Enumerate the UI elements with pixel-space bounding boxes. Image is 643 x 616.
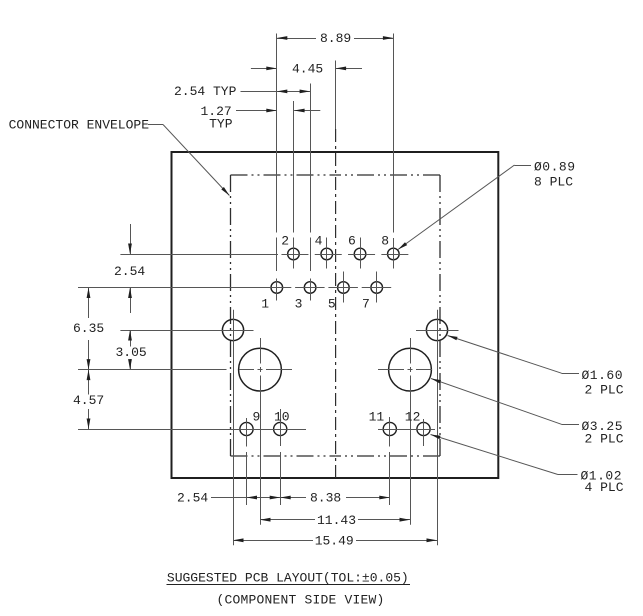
svg-text:6.35: 6.35 xyxy=(73,321,104,336)
svg-text:2.54 TYP: 2.54 TYP xyxy=(174,84,237,99)
svg-text:1: 1 xyxy=(261,297,269,312)
svg-text:2 PLC: 2 PLC xyxy=(585,432,624,447)
svg-text:15.49: 15.49 xyxy=(315,534,354,549)
svg-text:8 PLC: 8 PLC xyxy=(534,175,573,190)
svg-text:Ø0.89: Ø0.89 xyxy=(534,160,576,175)
svg-text:SUGGESTED PCB LAYOUT(TOL:±0.05: SUGGESTED PCB LAYOUT(TOL:±0.05) xyxy=(167,571,409,586)
svg-text:8.38: 8.38 xyxy=(310,491,341,506)
svg-text:6: 6 xyxy=(348,234,356,249)
svg-text:(COMPONENT SIDE VIEW): (COMPONENT SIDE VIEW) xyxy=(217,593,385,608)
svg-text:2.54: 2.54 xyxy=(177,491,208,506)
svg-text:8.89: 8.89 xyxy=(320,31,351,46)
svg-text:2: 2 xyxy=(281,234,289,249)
svg-text:10: 10 xyxy=(274,410,290,425)
svg-text:8: 8 xyxy=(381,234,389,249)
svg-text:2 PLC: 2 PLC xyxy=(585,382,624,397)
svg-text:7: 7 xyxy=(362,297,370,312)
svg-text:3.05: 3.05 xyxy=(116,345,147,360)
svg-text:Ø1.60: Ø1.60 xyxy=(582,368,624,383)
svg-text:CONNECTOR ENVELOPE: CONNECTOR ENVELOPE xyxy=(9,118,150,133)
svg-text:11: 11 xyxy=(369,410,385,425)
svg-text:11.43: 11.43 xyxy=(317,513,356,528)
svg-text:2.54: 2.54 xyxy=(114,264,145,279)
svg-text:4.57: 4.57 xyxy=(73,393,104,408)
svg-text:5: 5 xyxy=(328,297,336,312)
svg-text:4: 4 xyxy=(315,234,323,249)
svg-text:4 PLC: 4 PLC xyxy=(585,480,624,495)
svg-text:4.45: 4.45 xyxy=(292,62,323,77)
svg-text:3: 3 xyxy=(295,297,303,312)
svg-text:9: 9 xyxy=(253,410,261,425)
svg-text:12: 12 xyxy=(405,410,421,425)
svg-text:TYP: TYP xyxy=(209,116,233,131)
